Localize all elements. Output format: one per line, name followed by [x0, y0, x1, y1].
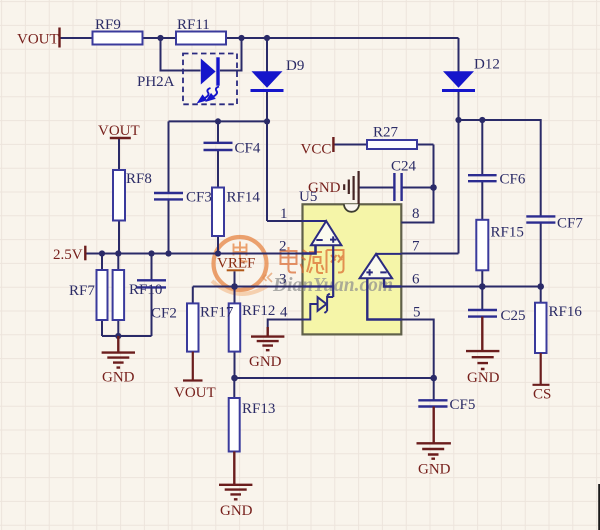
resistor RF16	[535, 303, 547, 353]
svg-text:1: 1	[280, 206, 288, 222]
wire pin 7 to D12 cathode column	[401, 92, 458, 254]
svg-text:3: 3	[279, 272, 287, 288]
net tick CS	[533, 353, 550, 385]
wire pin 4 to ground corner	[268, 320, 303, 334]
wire pin 8 to C24 node	[401, 145, 433, 223]
svg-text:2: 2	[279, 239, 287, 255]
op-amp U5A inverting input wire to pin 2	[303, 245, 316, 253]
wire RF11 to D12 corner	[226, 37, 459, 39]
svg-text:RF9: RF9	[95, 17, 121, 33]
wire CF5 node down to CF5	[433, 378, 435, 400]
svg-text:VOUT: VOUT	[98, 123, 140, 139]
wire top rail down to D9	[266, 38, 268, 72]
wire rail down to RF7	[101, 254, 103, 271]
junction link bar CF4	[215, 118, 221, 124]
svg-text:GND: GND	[467, 370, 500, 386]
wire pin 6 net down to C25	[481, 287, 483, 311]
svg-text:5: 5	[413, 305, 421, 321]
zener diode internal	[303, 294, 334, 320]
resistor RF12	[229, 303, 241, 351]
svg-text:GND: GND	[308, 180, 341, 196]
svg-text:8: 8	[412, 206, 420, 222]
wire junction down to RF13	[233, 378, 235, 398]
junction pin6 RF15 C25	[479, 283, 486, 290]
ground symbol rotated near VCC	[344, 171, 358, 204]
net tick 2.5V	[84, 246, 86, 261]
resistor RF8	[113, 170, 125, 221]
svg-text:RF15: RF15	[491, 225, 524, 241]
op-amp U5B non-inverting input wire to pin 5	[367, 278, 401, 319]
wire junction to opto LED anode	[161, 38, 201, 71]
net tick VCC	[332, 137, 334, 152]
svg-text:RF16: RF16	[549, 304, 583, 320]
ground symbol under RF13	[219, 452, 252, 500]
capacitor CF2	[137, 280, 166, 287]
junction D12 column	[455, 117, 461, 123]
wire RF12 to feedback junction	[234, 352, 236, 378]
wire pin 1 into U5	[267, 220, 303, 222]
svg-text:CF5: CF5	[450, 397, 476, 413]
ground symbol pin 4	[251, 327, 284, 350]
svg-text:CF7: CF7	[557, 216, 583, 232]
op-amp U5A input signs	[316, 236, 336, 242]
bottom right border artifact	[598, 484, 600, 530]
svg-text:D12: D12	[474, 57, 500, 73]
resistor RF9	[93, 32, 143, 45]
wire RF9 to RF11	[143, 37, 177, 39]
svg-text:CF3: CF3	[186, 190, 212, 206]
watermark swoosh	[212, 281, 267, 294]
op-amp U5A triangle	[311, 221, 341, 245]
junction feedback RF13	[231, 375, 238, 382]
svg-text:VOUT: VOUT	[17, 32, 59, 48]
op-amp U5B inverting input wire to pin 6	[384, 278, 401, 286]
wire R27 to C24 node	[417, 144, 434, 146]
wire pin 5 to CF5 node	[401, 320, 433, 379]
svg-text:VOUT: VOUT	[174, 385, 216, 401]
op-amp U5B triangle	[360, 254, 393, 278]
wire RF7 to ground link	[101, 320, 103, 336]
wire RF14 to 2.5V rail	[217, 236, 219, 254]
junction pin6 CF7 RF16	[537, 283, 544, 290]
junction rail RF7	[99, 250, 105, 256]
capacitor CF6	[468, 175, 497, 181]
wire pin 6 net	[401, 286, 540, 288]
wire RF10 to ground link	[117, 320, 119, 336]
opto-coupler PH2A LED	[201, 57, 220, 85]
svg-text:CF2: CF2	[151, 306, 177, 322]
junction pin3 net VREF	[231, 283, 238, 290]
wire VREF label to pin3 net	[234, 271, 236, 286]
wire CF3 to 2.5V rail	[168, 199, 170, 253]
svg-text:GND: GND	[220, 503, 253, 519]
svg-text:4: 4	[280, 305, 288, 321]
junction rail CF3	[165, 250, 171, 256]
wire D9 cathode down to pin 1 corner	[266, 92, 268, 221]
svg-text:R27: R27	[373, 125, 399, 141]
ground symbol under CF5	[417, 407, 451, 459]
resistor RF17	[187, 303, 199, 351]
wire ground symbol to C24 left plate	[359, 187, 395, 189]
wire D12 node bar to CF7 corner	[459, 120, 541, 216]
wire pin 3 net to RF17 and U5	[193, 286, 303, 288]
svg-text:7: 7	[412, 239, 420, 255]
wire top rail down to D12	[458, 38, 460, 72]
resistor RF7	[97, 270, 108, 320]
net label VREF	[217, 256, 255, 272]
wire VOUT tick to RF9	[60, 37, 93, 39]
wire opto LED cathode up to top rail	[220, 38, 242, 71]
wire CF4 to RF14	[217, 150, 219, 188]
wire VOUT tick to RF8	[118, 139, 120, 170]
wire link bar down to CF3	[168, 121, 170, 193]
opto-coupler PH2A light arrows	[199, 87, 219, 102]
ground symbol left	[102, 336, 135, 368]
svg-text:CF6: CF6	[500, 172, 526, 188]
junction top rail left	[157, 35, 163, 41]
op-amp U5B output wire to pin 7	[376, 253, 401, 255]
junction rail RF10	[115, 250, 121, 256]
svg-text:C25: C25	[501, 308, 526, 324]
wire rail down to RF10	[117, 254, 119, 271]
op-amp U5A output wire to pin 1	[303, 220, 327, 222]
wire RF15 to pin 6 net	[481, 270, 483, 286]
svg-text:RF11: RF11	[177, 17, 210, 33]
svg-text:RF14: RF14	[227, 190, 261, 206]
op-amp U5B input signs	[366, 269, 386, 275]
ground symbol under C25	[466, 317, 499, 369]
svg-text:CF4: CF4	[235, 141, 261, 157]
svg-text:RF12: RF12	[242, 303, 275, 319]
junction top rail D9	[264, 35, 270, 41]
capacitor CF4	[204, 143, 233, 150]
capacitor CF7	[526, 216, 555, 222]
op-amp U5 body	[303, 204, 402, 334]
wire 2.5V rail to pin 2	[85, 253, 302, 255]
net tick VOUT top left	[58, 28, 60, 48]
svg-text:RF13: RF13	[242, 401, 275, 417]
resistor RF13	[229, 398, 240, 452]
wire pin3 net down to RF12	[234, 287, 236, 304]
svg-text:D9: D9	[286, 58, 304, 74]
junction ground link	[115, 333, 121, 339]
wire CF3/CF4 link bar	[169, 120, 268, 122]
wire VCC tick to R27	[333, 144, 367, 146]
junction top rail opto cathode	[238, 35, 244, 41]
svg-text:GND: GND	[418, 462, 451, 478]
capacitor C24	[394, 173, 401, 201]
watermark trademark chevron	[263, 273, 272, 282]
resistor R27	[367, 140, 417, 149]
wire CF6 to RF15	[481, 181, 483, 220]
net tick VOUT mid left	[110, 137, 131, 139]
junction feedback CF5	[430, 375, 437, 382]
net tick VOUT bottom	[183, 352, 203, 381]
watermark logo ring	[214, 237, 267, 290]
junction rail RF14 VREF	[215, 250, 221, 256]
svg-text:VREF: VREF	[217, 256, 255, 272]
op-amp U5A non-inverting input wire	[332, 245, 334, 297]
wire CF7 to pin 6 net	[540, 223, 542, 287]
wire C24 right plate to node	[402, 187, 434, 189]
watermark chinese characters	[281, 247, 344, 273]
wire CF2 to ground link	[151, 287, 153, 336]
wire rail down to CF2	[151, 254, 153, 281]
capacitor CF3	[154, 193, 183, 199]
svg-text:GND: GND	[102, 370, 135, 386]
svg-text:C24: C24	[391, 159, 417, 175]
svg-text:RF17: RF17	[200, 305, 234, 321]
svg-text:GND: GND	[249, 354, 282, 370]
wire link bar down to CF4	[217, 121, 219, 142]
diode D12	[442, 71, 475, 92]
resistor RF11	[176, 32, 226, 45]
junction C24 pin8	[430, 184, 437, 191]
resistor RF10	[113, 270, 125, 320]
resistor RF15	[476, 220, 488, 270]
wire pin 3 inner segment to non-inverting input	[303, 285, 334, 287]
wire ground link bar	[102, 335, 152, 337]
svg-text:CS: CS	[533, 387, 551, 403]
wire RF8 to 2.5V rail	[118, 221, 120, 254]
resistor RF14	[212, 188, 224, 237]
svg-text:2.5V: 2.5V	[53, 247, 83, 263]
svg-text:RF7: RF7	[69, 283, 95, 299]
capacitor CF5	[418, 400, 447, 406]
svg-text:6: 6	[412, 272, 420, 288]
opto-coupler PH2A dashed box	[183, 54, 237, 105]
wire D12 node down to CF6	[481, 120, 483, 175]
capacitor C25	[468, 310, 497, 317]
svg-text:RF8: RF8	[126, 171, 152, 187]
svg-text:PH2A: PH2A	[137, 74, 175, 90]
junction rail CF2	[148, 250, 154, 256]
wire feedback junction to CF5 node	[235, 377, 434, 379]
junction link bar D9 column	[264, 118, 270, 124]
svg-text:RF10: RF10	[129, 282, 162, 298]
junction CF6 top	[479, 117, 485, 123]
wire pin 6 net down to RF16	[540, 287, 542, 303]
wire pin3 net down to RF17	[192, 287, 194, 304]
diode D9	[251, 71, 284, 92]
svg-text:VCC: VCC	[301, 142, 332, 158]
